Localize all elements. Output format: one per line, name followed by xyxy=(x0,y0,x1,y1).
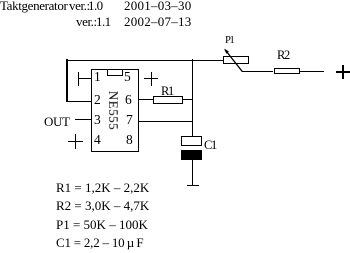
ground xyxy=(187,185,199,187)
wire pin 7 to bus xyxy=(138,121,193,122)
pin 1 terminal tick xyxy=(78,72,79,86)
wire pin 1 stub xyxy=(78,78,91,79)
vertical bus wire xyxy=(192,59,193,136)
resistor R1 body xyxy=(153,96,183,104)
plus sign at right supply xyxy=(336,71,350,72)
IC label NE555 xyxy=(107,91,120,130)
pin number 6 xyxy=(125,93,132,106)
wire C1 to ground xyxy=(192,160,193,185)
IC U1 NE555 body xyxy=(91,69,139,152)
wire P1 wiper to R2 xyxy=(242,71,273,72)
IC notch xyxy=(107,70,122,76)
label R1 xyxy=(161,85,173,97)
value label R1 range xyxy=(56,181,149,194)
pin number 7 xyxy=(126,113,133,126)
value label P1 range xyxy=(56,218,148,231)
label OUT xyxy=(44,115,70,128)
pin number 2 xyxy=(94,93,101,106)
value label R2 range xyxy=(56,199,149,212)
wire top net pin2/bus/P1 xyxy=(66,60,223,61)
capacitor C1 bottom plate xyxy=(181,150,202,160)
value label C1 range xyxy=(56,236,143,249)
resistor R2 body xyxy=(274,68,300,75)
wire pin 6 to R1 xyxy=(138,99,154,100)
label R2 xyxy=(277,49,289,61)
title line 1 xyxy=(0,0,67,12)
pin number 5 xyxy=(124,70,131,83)
label P1 xyxy=(225,36,233,47)
wire R1 to bus xyxy=(183,99,193,100)
plus sign near pin 4 xyxy=(68,141,83,143)
plus sign near pin 5 xyxy=(144,78,158,79)
capacitor C1 top plate xyxy=(181,136,202,146)
wire R2 right xyxy=(300,71,325,72)
pin number 4 xyxy=(94,133,101,146)
pin number 8 xyxy=(126,133,133,146)
pin number 1 xyxy=(94,70,101,83)
potentiometer P1 body xyxy=(223,56,249,64)
pin number 3 xyxy=(94,113,101,126)
wire pin 2 xyxy=(66,101,91,103)
wire pin 3 to OUT xyxy=(75,119,92,120)
label C1 xyxy=(204,139,216,151)
title line 2 xyxy=(76,15,97,28)
wire left vertical xyxy=(66,59,67,102)
